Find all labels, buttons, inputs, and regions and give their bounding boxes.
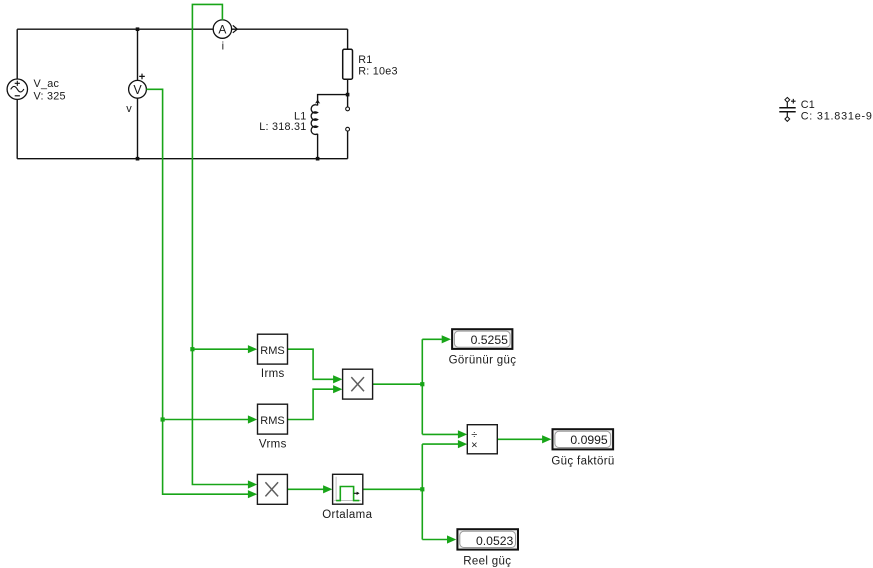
- voltmeter V1: [126, 74, 146, 115]
- svg-text:A: A: [218, 23, 226, 37]
- wire: L1 branch top: [318, 95, 348, 106]
- wire: branch to Irms input: [192, 348, 248, 350]
- wire: left vertical through V_ac: [16, 29, 18, 159]
- svg-text:RMS: RMS: [260, 345, 284, 357]
- wire: L1 branch bottom: [317, 134, 319, 159]
- svg-text:V: 325: V: 325: [34, 90, 66, 102]
- svg-text:Irms: Irms: [261, 368, 285, 380]
- svg-text:Vrms: Vrms: [259, 439, 287, 451]
- block Ortalama (averaging): [322, 474, 372, 521]
- block multiplier (instantaneous power): [257, 474, 287, 504]
- block multiplier (apparent power): [343, 369, 373, 399]
- wire: current probe link i (green): [192, 4, 248, 484]
- wire: branch to Vrms input: [163, 419, 249, 421]
- node: junction bottom at voltmeter branch: [136, 157, 140, 161]
- switch S1 (open contacts): [346, 107, 350, 131]
- wire: Ortalama output to divider and display: [363, 444, 458, 539]
- block divider (power factor): [467, 425, 497, 454]
- arrowheads (green): [248, 345, 257, 353]
- display Güç faktörü (power factor readout): [551, 429, 614, 467]
- wire: voltmeter branch vertical: [137, 29, 139, 159]
- wire: Irms output to multiplier in1: [288, 349, 334, 379]
- wire: Vrms output to multiplier in2: [288, 389, 334, 419]
- node: green junction multiplier output: [420, 382, 424, 386]
- node: green junction i/Irms: [190, 347, 194, 351]
- display Görünür güç (apparent power readout): [449, 329, 517, 366]
- svg-text:v: v: [126, 103, 132, 115]
- svg-text:×: ×: [471, 440, 477, 452]
- wire: multiplier output to display and divider: [373, 339, 459, 434]
- svg-text:i: i: [222, 41, 224, 53]
- node: green junction v/Vrms: [161, 417, 165, 421]
- svg-text:Görünür güç: Görünür güç: [449, 355, 517, 367]
- svg-text:0.0523: 0.0523: [476, 534, 513, 548]
- svg-text:L: 318.31: L: 318.31: [259, 121, 306, 133]
- block RMS Irms: [258, 334, 288, 380]
- node: junction bottom at L1 branch: [316, 157, 320, 161]
- wire: divider output to display: [497, 438, 542, 440]
- source V_ac: [7, 78, 66, 102]
- svg-text:V: V: [133, 83, 142, 97]
- svg-text:R: 10e3: R: 10e3: [358, 65, 398, 77]
- node: junction top at voltmeter branch: [136, 27, 140, 31]
- wire: bottom horizontal return net: [17, 158, 347, 160]
- svg-text:Reel güç: Reel güç: [463, 556, 511, 568]
- svg-text:0.0995: 0.0995: [570, 433, 607, 447]
- display Reel güç (real power readout): [457, 529, 518, 567]
- wire: voltage probe link v (green): [146, 89, 248, 494]
- resistor R1: [343, 49, 398, 79]
- svg-text:RMS: RMS: [260, 415, 284, 427]
- svg-text:V_ac: V_ac: [34, 78, 60, 90]
- capacitor C1: [779, 97, 872, 122]
- wire: bottom multiplier output to Ortalama: [287, 488, 323, 490]
- node: junction R1/L1/switch: [346, 93, 350, 97]
- svg-text:C: 31.831e-9: C: 31.831e-9: [801, 110, 873, 122]
- wire: top horizontal net from source to R1: [17, 28, 347, 30]
- svg-text:0.5255: 0.5255: [471, 333, 508, 347]
- block RMS Vrms: [258, 404, 288, 450]
- svg-text:Güç faktörü: Güç faktörü: [551, 456, 614, 468]
- inductor L1: [259, 99, 320, 134]
- node: green junction Ortalama output: [420, 487, 424, 491]
- ammeter A1: [213, 20, 237, 53]
- svg-text:Ortalama: Ortalama: [322, 509, 372, 521]
- svg-text:R1: R1: [358, 54, 372, 66]
- svg-text:C1: C1: [801, 99, 815, 111]
- wire: right branch R1 to switch: [347, 79, 349, 107]
- wire: right branch below switch: [347, 131, 349, 159]
- wire: right branch above R1: [347, 29, 349, 49]
